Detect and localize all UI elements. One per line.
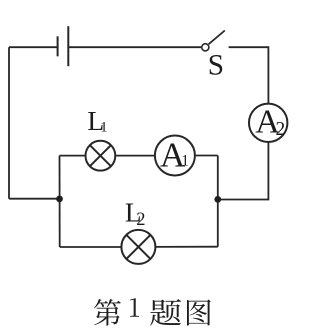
wire left vertical xyxy=(8,47,10,199)
svg-text:1: 1 xyxy=(181,152,189,169)
wire L2 to right riser xyxy=(155,246,217,248)
wire switch to top-right corner down to A2 xyxy=(229,47,269,103)
switch S xyxy=(202,31,225,51)
wire A2 to right junction xyxy=(219,142,268,199)
wire top branch to L1 xyxy=(60,155,86,157)
caption char 第 xyxy=(94,299,121,326)
caption char 题 xyxy=(150,299,181,326)
node right junction xyxy=(214,196,221,203)
wire top-left horizontal xyxy=(9,46,58,48)
ammeter A1 circle xyxy=(155,136,195,176)
wire battery to switch xyxy=(68,46,201,48)
wire left riser through node xyxy=(59,156,61,247)
wire right riser vertical xyxy=(217,156,219,247)
node left junction xyxy=(56,196,63,203)
ammeter A2 circle xyxy=(249,104,287,142)
svg-text:2: 2 xyxy=(136,210,145,230)
svg-text:1: 1 xyxy=(100,119,108,135)
wire bottom branch left xyxy=(60,246,122,248)
caption char 1 xyxy=(130,298,139,316)
wire left horizontal to node xyxy=(9,198,60,200)
lamp L2 xyxy=(121,230,155,264)
caption char 图 xyxy=(187,300,211,326)
lamp L1 xyxy=(86,141,116,171)
wire L1 to A1 xyxy=(115,155,155,157)
wire A1 to right riser xyxy=(195,155,218,157)
battery (cell) xyxy=(58,26,69,66)
svg-text:2: 2 xyxy=(276,119,286,140)
svg-text:S: S xyxy=(208,49,224,81)
